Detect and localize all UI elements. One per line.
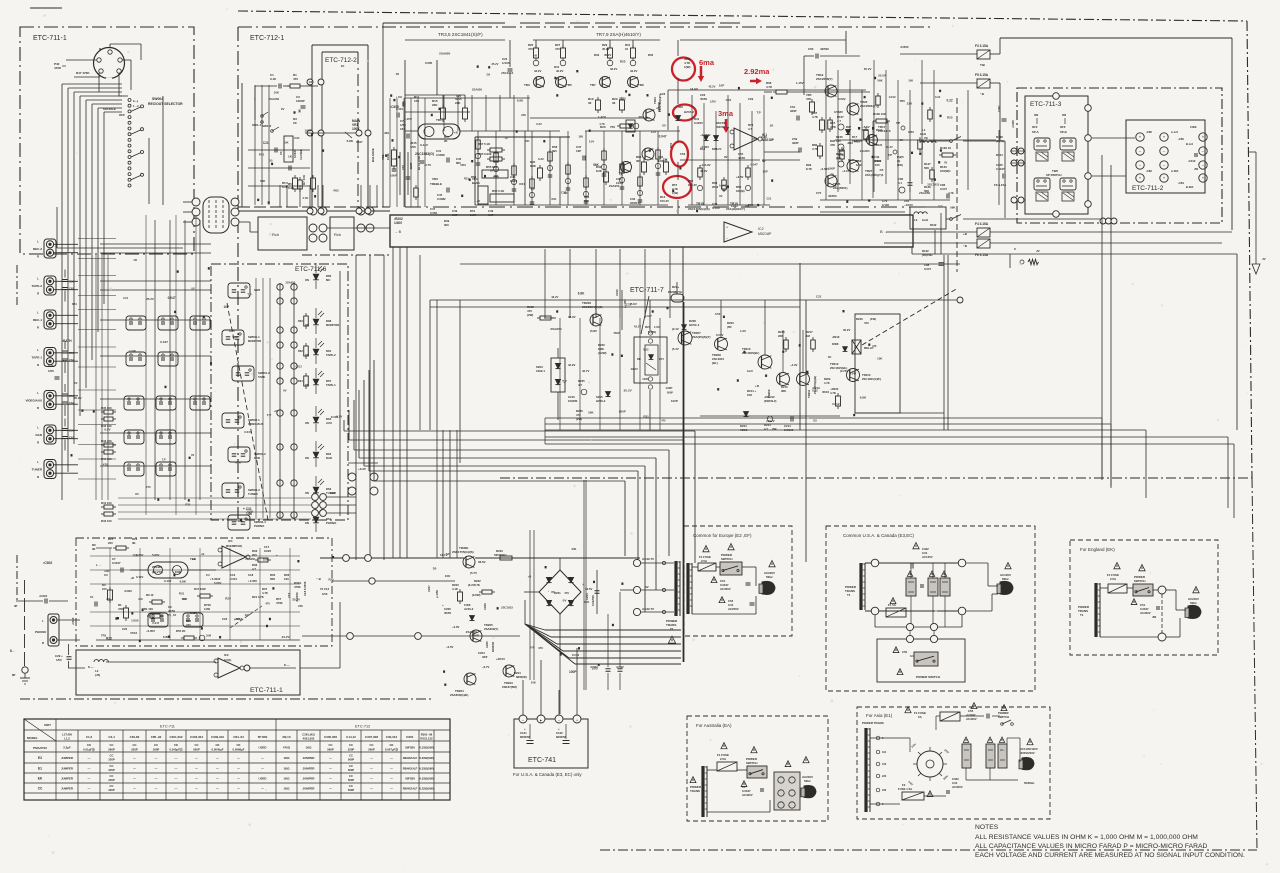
svg-text:▪C/500: ▪C/500: [900, 45, 909, 49]
svg-text:560P: 560P: [232, 335, 238, 339]
svg-text:TR5: TR5: [101, 634, 107, 638]
svg-text:JV: JV: [1262, 257, 1266, 261]
svg-text:1KΩ: 1KΩ: [283, 756, 290, 760]
svg-text:200: 200: [252, 553, 257, 557]
svg-text:—: —: [133, 787, 136, 791]
svg-text:1/50: 1/50: [460, 163, 466, 167]
svg-text:C75: C75: [816, 191, 822, 195]
svg-text:T1: T1: [847, 593, 851, 597]
svg-text:1/50: 1/50: [48, 369, 54, 373]
svg-text:E3: E3: [38, 756, 42, 760]
svg-text:IC2: IC2: [758, 227, 764, 231]
svg-text:JUMPER: JUMPER: [61, 767, 74, 771]
svg-text:D201: D201: [554, 591, 561, 595]
svg-text:6.8K: 6.8K: [180, 579, 187, 583]
svg-text:USED: USED: [258, 777, 266, 781]
svg-text:3ma: 3ma: [718, 109, 734, 118]
svg-text:1.2V: 1.2V: [740, 329, 746, 333]
svg-text:D201: D201: [406, 735, 414, 739]
svg-text:05F820: 05F820: [405, 746, 415, 750]
svg-text:1mV: 1mV: [747, 369, 753, 373]
svg-text:2SC1815: 2SC1815: [501, 606, 513, 610]
svg-text:(5.7V: (5.7V: [470, 571, 477, 575]
svg-text:CC: CC: [110, 784, 114, 788]
svg-text:(BL)/Y0): (BL)/Y0): [152, 570, 163, 574]
svg-text:(2W): (2W): [527, 313, 533, 317]
svg-text:D5: D5: [880, 168, 884, 172]
svg-text:2SC1815: 2SC1815: [501, 71, 514, 75]
svg-text:R25: R25: [106, 637, 112, 641]
svg-text:50Hz: 50Hz: [766, 575, 773, 579]
svg-text:C210: C210: [615, 289, 619, 296]
svg-text:AC250V: AC250V: [728, 607, 739, 611]
svg-text:CK: CK: [87, 743, 91, 747]
svg-text:220P: 220P: [108, 758, 114, 762]
svg-text:45/16: 45/16: [822, 390, 829, 394]
svg-text:▪D5: ▪D5: [678, 105, 683, 109]
svg-text:B-L/A: B-L/A: [1186, 142, 1193, 146]
svg-text:10P: 10P: [223, 305, 230, 309]
svg-text:56K: 56K: [924, 166, 929, 170]
svg-text:C212: C212: [296, 365, 303, 369]
svg-text:56K: 56K: [588, 410, 594, 414]
svg-text:MC: MC: [326, 278, 330, 282]
svg-text:470: 470: [103, 462, 108, 466]
svg-text:TAPE-2: TAPE-2: [326, 353, 336, 357]
svg-text:TR3: TR3: [524, 83, 530, 87]
svg-text:C305: C305: [425, 61, 433, 65]
svg-text:−0.05V: −0.05V: [146, 629, 155, 633]
svg-text:0.33Ω(5W): 0.33Ω(5W): [419, 767, 433, 771]
svg-text:T,P: T,P: [619, 172, 624, 176]
svg-text:100P: 100P: [569, 670, 577, 674]
svg-text:2SA950: 2SA950: [439, 52, 450, 56]
svg-text:C67: C67: [401, 164, 405, 170]
svg-text:560P: 560P: [193, 748, 200, 752]
svg-text:43.2V: 43.2V: [610, 67, 617, 71]
svg-text:R: R: [99, 47, 101, 51]
svg-text:10: 10: [625, 47, 629, 51]
svg-text:560P: 560P: [348, 788, 354, 792]
svg-text:Rch: Rch: [272, 232, 279, 237]
svg-text:TR5: TR5: [133, 554, 139, 558]
svg-text:R220: R220: [856, 317, 863, 321]
svg-text:1/2(1): 1/2(1): [224, 658, 231, 662]
svg-text:0V: 0V: [662, 124, 666, 128]
svg-text:ETC-711-2: ETC-711-2: [1132, 185, 1164, 192]
svg-text:F4 3.15A: F4 3.15A: [975, 222, 989, 226]
svg-text:—: —: [88, 756, 91, 760]
svg-text:R31: R31: [572, 547, 577, 551]
svg-text:AC400V: AC400V: [1140, 611, 1151, 615]
svg-text:C21: C21: [294, 136, 300, 140]
svg-text:SWITCH: SWITCH: [746, 761, 757, 765]
svg-text:▪EATH: ▪EATH: [62, 339, 72, 343]
svg-text:0.047: 0.047: [152, 621, 159, 625]
svg-text:T,P: T,P: [938, 205, 942, 209]
svg-text:R47 470K: R47 470K: [76, 71, 90, 75]
svg-text:8.2K: 8.2K: [530, 164, 536, 168]
svg-text:3P: 3P: [14, 604, 18, 608]
svg-text:IS2076: IS2076: [716, 125, 725, 129]
svg-text:R62: R62: [298, 349, 303, 353]
svg-text:470: 470: [146, 485, 151, 489]
svg-text:C212: C212: [731, 204, 738, 208]
svg-text:▪R219: ▪R219: [832, 335, 840, 339]
svg-text:A-R/A: A-R/A: [1171, 169, 1179, 173]
svg-text:C62: C62: [69, 287, 75, 291]
svg-text:05F820: 05F820: [405, 777, 415, 781]
svg-text:43.2V: 43.2V: [631, 367, 638, 371]
svg-text:2SA950: 2SA950: [472, 87, 482, 91]
svg-text:▪R121: ▪R121: [875, 143, 883, 147]
svg-text:—: —: [390, 787, 393, 791]
svg-text:560P: 560P: [348, 758, 354, 762]
svg-text:(2SD/4L2): (2SD/4L2): [764, 399, 777, 403]
svg-text:JUMPER: JUMPER: [61, 787, 74, 791]
svg-text:—: —: [88, 767, 91, 771]
svg-text:ETC-711-7: ETC-711-7: [630, 287, 664, 294]
svg-text:TR9: TR9: [638, 83, 644, 87]
svg-text:35.2V: 35.2V: [886, 145, 893, 149]
svg-text:110: 110: [882, 751, 887, 754]
svg-text:0.223V: 0.223V: [694, 121, 703, 125]
svg-text:2—(: 2—(: [133, 99, 138, 103]
svg-text:TL_10: TL_10: [168, 613, 177, 617]
svg-text:35.2V: 35.2V: [146, 297, 154, 301]
svg-text:D5: D5: [487, 72, 491, 76]
svg-text:240: 240: [882, 789, 887, 792]
svg-text:R61: R61: [298, 379, 303, 383]
svg-text:(0.73V: (0.73V: [840, 369, 848, 373]
svg-text:▪C308: ▪C308: [1011, 120, 1015, 128]
svg-text:D5: D5: [269, 159, 273, 163]
svg-text:6.8K: 6.8K: [860, 395, 867, 399]
svg-text:150.3V: 150.3V: [660, 199, 669, 203]
svg-text:TAPE: TAPE: [258, 375, 265, 379]
svg-text:▪C84: ▪C84: [1178, 181, 1184, 185]
svg-text:10/20: 10/20: [264, 549, 271, 553]
svg-text:2SA(05)(S)(Y): 2SA(05)(S)(Y): [692, 335, 711, 339]
svg-text:33: 33: [612, 101, 616, 105]
svg-text:4051,202: 4051,202: [303, 737, 315, 741]
svg-text:PS0META: PS0META: [668, 290, 683, 294]
svg-text:R25: R25: [456, 94, 461, 98]
svg-text:50Hz: 50Hz: [804, 779, 811, 783]
svg-text:C21: C21: [766, 196, 771, 200]
svg-text:330P: 330P: [790, 109, 797, 113]
svg-text:CC: CC: [132, 743, 136, 747]
svg-text:0.22: 0.22: [536, 122, 542, 126]
svg-text:ETC-741: ETC-741: [528, 757, 556, 764]
svg-text:TUNER: TUNER: [32, 468, 43, 472]
svg-text:2SC1705(G)/(S): 2SC1705(G)/(S): [688, 207, 710, 211]
svg-text:(1/2W): (1/2W): [598, 351, 606, 355]
svg-text:—: —: [133, 777, 136, 781]
svg-text:R31: R31: [525, 139, 530, 143]
svg-text:▪ 0.0022: ▪ 0.0022: [210, 577, 221, 581]
svg-text:1/100: 1/100: [882, 203, 889, 207]
svg-text:22K: 22K: [432, 103, 438, 107]
svg-text:R43 100: R43 100: [101, 439, 112, 443]
svg-text:μ 1/50: μ 1/50: [435, 590, 439, 598]
svg-text:PHONO: PHONO: [326, 521, 337, 525]
svg-text:SP-A: SP-A: [1032, 130, 1039, 134]
svg-text:RB402ULF: RB402ULF: [403, 767, 418, 771]
svg-text:T,P: T,P: [445, 552, 449, 556]
svg-text:470: 470: [555, 47, 560, 51]
svg-text:—: —: [216, 777, 219, 781]
svg-text:CC: CC: [38, 787, 43, 791]
svg-text:D13: D13: [700, 147, 706, 151]
svg-text:(2)(W): (2)(W): [648, 330, 656, 334]
svg-text:0V: 0V: [281, 107, 285, 111]
svg-text:0.047: 0.047: [160, 340, 168, 344]
svg-text:C60: C60: [808, 47, 814, 51]
svg-text:—: —: [261, 787, 264, 791]
svg-text:C56: C56: [69, 429, 75, 433]
svg-text:0.22: 0.22: [935, 95, 941, 99]
svg-text:100/NS: 100/NS: [568, 399, 577, 403]
svg-text:C21: C21: [816, 295, 822, 299]
svg-text:—: —: [133, 756, 136, 760]
svg-text:10K: 10K: [309, 80, 314, 84]
svg-text:▸: ▸: [540, 718, 542, 723]
svg-text:R: R: [37, 363, 39, 367]
svg-text:10K: 10K: [877, 356, 883, 360]
svg-text:T,P: T,P: [63, 359, 67, 363]
svg-text:1/100: 1/100: [502, 61, 510, 65]
svg-text:R109 100: R109 100: [873, 112, 886, 116]
svg-text:JW: JW: [1152, 615, 1157, 619]
svg-text:TR1: TR1: [436, 118, 442, 122]
svg-text:35.2V: 35.2V: [619, 96, 626, 100]
svg-text:POWER TRANS: POWER TRANS: [862, 721, 884, 725]
svg-text:0.045μFⒹ: 0.045μFⒹ: [169, 748, 182, 752]
svg-text:—: —: [237, 787, 240, 791]
svg-text:JUMPER: JUMPER: [302, 756, 315, 760]
svg-text:0.22: 0.22: [538, 157, 544, 161]
svg-text:470: 470: [186, 623, 191, 627]
svg-text:35.2V: 35.2V: [878, 73, 886, 77]
svg-text:VR1 100: VR1 100: [142, 607, 153, 611]
svg-text:5.63V: 5.63V: [152, 553, 159, 557]
svg-text:47/16: 47/16: [130, 631, 137, 635]
svg-text:4.7: 4.7: [764, 427, 768, 431]
svg-text:470: 470: [538, 646, 543, 650]
svg-text:D5: D5: [433, 567, 437, 571]
svg-text:C1: C1: [90, 595, 94, 599]
svg-text:OFF: OFF: [119, 113, 125, 117]
svg-text:C30: C30: [48, 364, 54, 368]
svg-text:IC1: IC1: [228, 539, 233, 543]
svg-text:560P: 560P: [175, 570, 182, 574]
svg-text:AC32.7V: AC32.7V: [642, 557, 654, 561]
svg-text:1/100: 1/100: [246, 510, 253, 514]
svg-text:220P: 220P: [348, 748, 355, 752]
svg-text:2023: 2023: [712, 185, 719, 189]
svg-text:0.22: 0.22: [812, 388, 818, 392]
svg-text:R: R: [37, 255, 39, 259]
svg-text:R55 2K: R55 2K: [176, 629, 185, 633]
svg-text:C212: C212: [572, 653, 580, 657]
svg-text:C307: C307: [997, 105, 1001, 112]
svg-text:C309,310: C309,310: [211, 735, 224, 739]
svg-text:560P: 560P: [614, 331, 620, 335]
svg-text:10P: 10P: [245, 613, 250, 617]
svg-text:C62: C62: [69, 436, 75, 440]
svg-text:—: —: [175, 787, 178, 791]
svg-text:CC: CC: [154, 743, 158, 747]
svg-text:0.22: 0.22: [391, 157, 397, 161]
svg-text:(5.8V: (5.8V: [590, 329, 597, 333]
svg-text:SWITCH: SWITCH: [1134, 579, 1145, 583]
svg-text:35.2V: 35.2V: [491, 62, 498, 66]
svg-text:—: —: [329, 777, 332, 781]
svg-text:2SA950: 2SA950: [550, 327, 562, 331]
svg-text:RB402ULF: RB402ULF: [403, 787, 418, 791]
svg-text:−1/100: −1/100: [904, 203, 913, 207]
svg-text:D5: D5: [551, 590, 555, 594]
svg-text:470K: 470K: [54, 66, 62, 70]
svg-text:SWITCH: SWITCH: [998, 715, 1009, 719]
svg-text:1KΩ: 1KΩ: [283, 777, 290, 781]
svg-text:PHONO: PHONO: [35, 630, 47, 634]
svg-text:330P: 330P: [792, 141, 799, 145]
svg-text:T,P: T,P: [162, 457, 166, 461]
svg-text:0.14V: 0.14V: [164, 579, 171, 583]
svg-text:1/100: 1/100: [131, 619, 139, 623]
svg-text:/220V/240V: /220V/240V: [1020, 751, 1035, 755]
svg-text:1/50: 1/50: [710, 99, 716, 103]
svg-text:R220: R220: [824, 377, 831, 381]
svg-text:M5238P/0/2): M5238P/0/2): [226, 544, 242, 548]
svg-text:For Australia (EA): For Australia (EA): [696, 723, 732, 728]
svg-text:2.92ma: 2.92ma: [744, 67, 770, 76]
svg-text:TR7,9 2SA(H)4510/Y): TR7,9 2SA(H)4510/Y): [596, 32, 641, 37]
svg-text:1/50: 1/50: [592, 667, 598, 671]
svg-text:4.7K: 4.7K: [830, 125, 836, 129]
svg-text:1(W): 1(W): [684, 65, 691, 69]
svg-text:+28.5V: +28.5V: [496, 657, 505, 661]
svg-text:0.0045μF: 0.0045μF: [212, 748, 224, 752]
svg-text:1KΩ: 1KΩ: [283, 787, 290, 791]
svg-text:T,P: T,P: [247, 292, 251, 296]
svg-text:CC: CC: [349, 754, 353, 758]
svg-text:TR5: TR5: [566, 83, 572, 87]
svg-text:R9,10: R9,10: [282, 735, 290, 739]
svg-text:—: —: [155, 756, 158, 760]
svg-text:R22+: R22+: [672, 285, 680, 289]
svg-text:R31: R31: [643, 415, 649, 419]
svg-text:1002-1: 1002-1: [536, 369, 545, 373]
svg-text:C81,82: C81,82: [130, 735, 140, 739]
svg-text:220P: 220P: [131, 748, 138, 752]
svg-text:HZ15-2: HZ15-2: [684, 110, 694, 114]
svg-text:C203: C203: [585, 593, 589, 600]
svg-text:ETC-711-3: ETC-711-3: [1030, 101, 1062, 108]
svg-text:USED: USED: [258, 746, 266, 750]
svg-text:0.0068μF: 0.0068μF: [233, 748, 245, 752]
svg-text:CC: CC: [110, 774, 114, 778]
svg-text:R41 100: R41 100: [101, 501, 112, 505]
svg-text:R132: R132: [930, 223, 937, 227]
svg-text:L: L: [42, 619, 44, 623]
svg-text:4.7: 4.7: [837, 119, 841, 123]
svg-text:560P: 560P: [368, 748, 375, 752]
svg-text:C209: C209: [483, 603, 487, 610]
svg-text:R63: R63: [298, 319, 303, 323]
svg-text:470: 470: [265, 601, 270, 605]
svg-text:45.2V: 45.2V: [604, 53, 611, 57]
svg-text:▪C302: ▪C302: [43, 561, 52, 565]
svg-text:0V: 0V: [719, 194, 723, 198]
svg-text:NOTES: NOTES: [975, 824, 999, 831]
svg-text:C56: C56: [69, 351, 75, 355]
svg-text:2SA600(G)/E): 2SA600(G)/E): [450, 693, 468, 697]
svg-text:22K: 22K: [298, 604, 303, 608]
svg-text:R531,122: R531,122: [420, 737, 433, 741]
svg-text:C84~64: C84~64: [233, 735, 244, 739]
svg-text:0.047: 0.047: [659, 135, 667, 139]
svg-text:(0): (0): [897, 159, 900, 163]
svg-text:T/B: T/B: [980, 63, 986, 67]
svg-text:L: L: [37, 240, 39, 244]
svg-text:ETC-711-1: ETC-711-1: [250, 687, 283, 694]
svg-text:VD6C: VD6C: [740, 428, 747, 432]
svg-text:—: —: [370, 767, 373, 771]
svg-text:(5R: (5R: [772, 427, 777, 431]
svg-text:Ⓡ: Ⓡ: [298, 108, 301, 113]
svg-text:TRANS: TRANS: [690, 789, 700, 793]
svg-text:DAD: DAD: [326, 456, 332, 460]
svg-text:—: —: [195, 777, 198, 781]
svg-text:(J5): (J5): [95, 673, 100, 677]
svg-text:2SA950: 2SA950: [268, 97, 279, 101]
svg-text:R97: R97: [846, 125, 852, 129]
svg-text:0V: 0V: [74, 381, 78, 385]
svg-text:1M: 1M: [806, 334, 811, 338]
svg-text:SP SWITCH: SP SWITCH: [1046, 173, 1062, 177]
svg-text:0V: 0V: [724, 155, 728, 159]
svg-text:0.0033: 0.0033: [293, 149, 297, 158]
svg-text:—: —: [390, 756, 393, 760]
svg-text:C18: C18: [248, 573, 254, 577]
svg-text:8 —: 8 —: [284, 663, 290, 667]
svg-text:390: 390: [552, 149, 557, 153]
svg-text:+B: +B: [528, 574, 532, 578]
svg-text:(2.4V: (2.4V: [672, 327, 679, 331]
svg-text:0.047: 0.047: [356, 140, 363, 144]
svg-text:2SA(5601): 2SA(5601): [833, 186, 848, 190]
svg-text:0.5V: 0.5V: [104, 427, 111, 431]
svg-text:4.7: 4.7: [252, 567, 256, 571]
svg-text:TR3,5 2SC1841(S)/F): TR3,5 2SC1841(S)/F): [438, 32, 483, 37]
svg-text:C212: C212: [832, 402, 840, 406]
svg-text:CC: CC: [349, 743, 353, 747]
svg-text:47K: 47K: [830, 143, 835, 147]
svg-text:100P: 100P: [665, 386, 672, 390]
svg-text:1/50: 1/50: [56, 658, 62, 662]
svg-text:0V: 0V: [645, 585, 649, 589]
svg-text:C50: C50: [902, 650, 908, 654]
svg-text:3K: 3K: [92, 547, 96, 551]
svg-text:C85~92: C85~92: [151, 735, 162, 739]
svg-text:R104: R104: [996, 153, 1003, 157]
svg-text:—: —: [175, 767, 178, 771]
svg-text:(BL): (BL): [712, 361, 718, 365]
svg-text:+B: +B: [201, 552, 205, 556]
